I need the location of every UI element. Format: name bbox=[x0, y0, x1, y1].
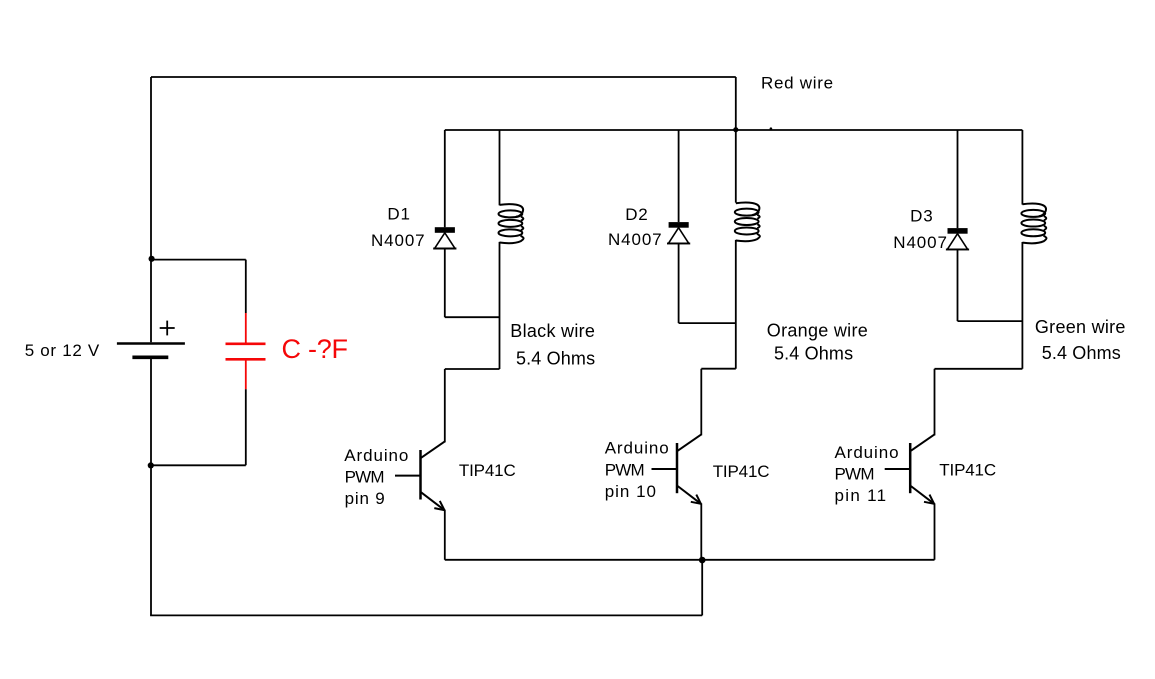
svg-text:5.4 Ohms: 5.4 Ohms bbox=[516, 349, 595, 369]
svg-text:N4007: N4007 bbox=[608, 230, 663, 249]
svg-text:pin 9: pin 9 bbox=[345, 489, 386, 508]
svg-text:Arduino: Arduino bbox=[835, 443, 900, 462]
svg-text:N4007: N4007 bbox=[893, 233, 948, 252]
svg-text:Arduino: Arduino bbox=[605, 439, 670, 458]
svg-text:Green wire: Green wire bbox=[1035, 317, 1126, 337]
svg-text:TIP41C: TIP41C bbox=[459, 461, 516, 480]
svg-text:TIP41C: TIP41C bbox=[713, 462, 770, 481]
svg-text:Orange wire: Orange wire bbox=[767, 320, 868, 340]
svg-text:Red wire: Red wire bbox=[761, 73, 834, 92]
svg-text:Arduino: Arduino bbox=[344, 446, 409, 465]
svg-text:TIP41C: TIP41C bbox=[939, 461, 996, 480]
svg-text:pin 11: pin 11 bbox=[835, 486, 888, 505]
svg-text:N4007: N4007 bbox=[371, 231, 426, 250]
svg-text:PWM: PWM bbox=[835, 465, 874, 484]
svg-text:5 or 12 V: 5 or 12 V bbox=[25, 341, 100, 360]
svg-text:Black wire: Black wire bbox=[510, 321, 595, 341]
svg-text:D3: D3 bbox=[910, 207, 933, 226]
svg-text:D2: D2 bbox=[625, 205, 648, 224]
svg-text:C -?F: C -?F bbox=[282, 334, 348, 364]
svg-text:pin 10: pin 10 bbox=[605, 482, 657, 501]
svg-text:D1: D1 bbox=[387, 205, 410, 224]
svg-text:PWM: PWM bbox=[605, 460, 644, 479]
svg-text:5.4 Ohms: 5.4 Ohms bbox=[774, 344, 853, 364]
svg-text:5.4 Ohms: 5.4 Ohms bbox=[1042, 343, 1121, 363]
svg-text:PWM: PWM bbox=[345, 468, 384, 487]
